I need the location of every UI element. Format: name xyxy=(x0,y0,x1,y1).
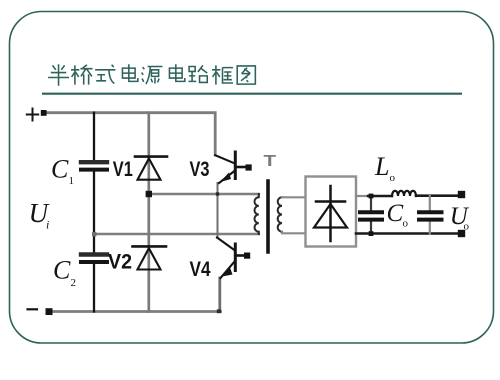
wire top rail to V3 collector xyxy=(46,113,215,155)
svg-text:i: i xyxy=(46,218,49,232)
svg-text:2: 2 xyxy=(71,277,77,289)
wire bottom rail xyxy=(47,310,221,313)
diode V1 xyxy=(135,155,167,158)
diode V2 xyxy=(133,245,167,248)
junction dot node A xyxy=(216,192,219,195)
svg-text:V3: V3 xyxy=(190,158,210,181)
capacitor C2 xyxy=(81,252,107,256)
filter capacitor Co xyxy=(429,196,431,234)
junction dot V3 base xyxy=(246,164,252,170)
svg-text:V4: V4 xyxy=(190,258,211,281)
wire V1-V2 branch xyxy=(147,113,150,312)
capacitor C1 xyxy=(81,160,107,164)
output terminal top xyxy=(458,191,465,198)
junction dot minus terminal xyxy=(46,308,53,315)
junction dot V4 emitter corner xyxy=(217,309,221,313)
svg-text:T: T xyxy=(264,153,277,170)
rectifier diode symbol xyxy=(329,186,332,241)
filter capacitor 1 xyxy=(370,196,372,234)
wire V3 emitter to V4 collector xyxy=(217,183,219,238)
wire V4 emitter to bottom rail xyxy=(218,278,221,312)
plus input terminal xyxy=(27,109,38,121)
svg-text:o: o xyxy=(464,221,470,233)
transformer T secondary winding xyxy=(278,197,282,231)
junction dot V4 base xyxy=(244,253,250,259)
wire rectifier output top xyxy=(356,195,368,197)
junction dot C1-C2 midpoint xyxy=(92,232,96,236)
svg-text:L: L xyxy=(374,152,389,181)
junction dot V1-V2 midpoint xyxy=(146,191,152,197)
transformer T primary winding xyxy=(254,194,258,234)
svg-text:V1: V1 xyxy=(113,158,133,181)
inductor L xyxy=(392,191,416,196)
wire mid node rail to transformer primary bottom xyxy=(94,233,259,236)
wire secondary to rectifier xyxy=(282,197,306,233)
minus input terminal xyxy=(28,308,38,310)
wire rectifier output bottom xyxy=(356,232,462,235)
svg-text:o: o xyxy=(403,218,409,230)
svg-text:V2: V2 xyxy=(108,251,132,274)
transistor V3 xyxy=(234,152,237,179)
junction dot plus terminal xyxy=(41,110,47,116)
rectifier bridge box xyxy=(306,177,357,247)
svg-text:1: 1 xyxy=(69,175,75,187)
svg-text:C: C xyxy=(387,200,404,227)
transistor V4 xyxy=(234,244,237,271)
junction dot filter cap top xyxy=(369,194,374,199)
transformer T core xyxy=(266,181,270,252)
svg-text:o: o xyxy=(390,172,396,184)
svg-text:C: C xyxy=(53,256,71,285)
wire node A rail to transformer primary top xyxy=(149,193,259,196)
wire C1-C2 branch xyxy=(93,113,95,312)
svg-text:C: C xyxy=(51,155,69,184)
output terminal bottom xyxy=(458,230,465,237)
junction dot filter cap bottom xyxy=(369,231,374,236)
